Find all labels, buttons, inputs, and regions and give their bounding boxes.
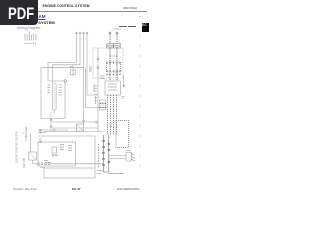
shield box S1 (100, 100, 106, 110)
pin label stack P2 (59, 85, 62, 95)
header rule (37, 10, 147, 13)
connector brackets on enclosure top (107, 44, 121, 48)
wire W2 (feed to resistor stem) (53, 34, 81, 84)
ECM strip box (41, 168, 102, 179)
wire W8 (38, 135, 95, 137)
wire W13 (52, 121, 96, 123)
wire W1 (feed to coil line) (48, 34, 77, 82)
label cluster N4 (left of enclosure) (89, 67, 92, 71)
INFOID code smudge (119, 26, 127, 27)
connector circle X4 (40, 129, 42, 131)
wire W5 (feed to harness) (87, 34, 98, 96)
connector circle X1 (64, 80, 67, 83)
component T1 (sensor tap) (70, 65, 80, 77)
label EC page ref (108, 173, 124, 175)
vertical label V3 (left of conduit) (98, 144, 100, 168)
wiring diagram svg (0, 0, 149, 198)
component C3 (inside U1) (52, 145, 72, 157)
margin grid marks (139, 17, 141, 167)
wire W7b (38, 131, 46, 133)
wire W11 (34, 163, 104, 165)
dashed sub box E2 (107, 62, 121, 72)
connector M1 (solid box) (105, 81, 121, 95)
dotted branch wires (100, 104, 107, 108)
header title (0, 4, 132, 8)
svg-text:IGNITION: IGNITION (24, 157, 26, 168)
wire W15 (44, 131, 104, 133)
wire labels above connector M1 (100, 76, 105, 79)
ignition coil bar (48, 80, 67, 83)
terminator X2 (122, 75, 125, 99)
wire W9 (left drop) (30, 134, 32, 153)
arrowheads on dashed wires (109, 32, 118, 34)
link WIRING DIAGRAM (partially covered by badge) (35, 14, 45, 19)
svg-text:CONDENSER: CONDENSER (26, 126, 28, 141)
outer unit right edge (94, 136, 96, 168)
conduit bus K1 (103, 135, 110, 172)
wire W4 (feed down to condenser node) (83, 68, 85, 121)
ground G1 (body ground with hatch) (109, 151, 135, 162)
footer page number (72, 187, 81, 191)
vertical label V2 (left of M1) (93, 84, 95, 92)
wire W6 (harness left drop) (97, 78, 99, 132)
arrowheads on feed wires (75, 32, 88, 34)
Wiring Diagram subheading (17, 26, 40, 30)
switch box SW1 (29, 152, 37, 160)
label cluster N1 (94, 86, 98, 101)
resistor R1 (tall loop element) (53, 83, 57, 114)
EC section tab (142, 23, 150, 32)
dashed wire D2 (dotted chain) (116, 34, 118, 82)
connector circle XA (97, 58, 99, 60)
wire W4b (shield drop) (86, 68, 101, 108)
wire W12 (dashed drop with taps) (50, 112, 52, 132)
internal wire W6a (97, 48, 99, 78)
footer model (117, 188, 139, 191)
header engine code (122, 6, 138, 10)
connector circle X7 (83, 120, 85, 122)
svg-text:ENGINE CONTROL SYSTEM: ENGINE CONTROL SYSTEM (16, 131, 19, 163)
connector circle X6 (96, 121, 98, 123)
dashed wire D1 (dotted chain) (109, 34, 111, 82)
pin dots of harness E1 (106, 62, 120, 75)
heading SYSTEM (partially covered by badge) (38, 20, 54, 25)
pin label stack P1 (48, 85, 51, 93)
wire W10 (32, 160, 34, 164)
pin dot columns under connector M1 (100, 95, 117, 135)
label above dashed wires (114, 28, 121, 30)
connector circles X5 (38, 163, 40, 165)
wire W3 (feed to box left edge) (41, 34, 84, 119)
dashed harness enclosure E1 (93, 48, 123, 78)
label cluster N3 (110, 124, 113, 127)
connector circles X4b (40, 139, 42, 141)
label cluster N5 (100, 170, 105, 172)
relay RY1 contact rows (29, 129, 104, 165)
condenser C4 (box with diagonal) (77, 120, 85, 131)
link dashes inside E2 (110, 55, 117, 57)
control unit box U1 (38, 142, 76, 166)
dashed box E3 (116, 121, 129, 148)
footer revision (13, 188, 37, 191)
wire W14 (52, 127, 98, 129)
fuse legend cluster (24, 30, 37, 44)
label cluster N6 (44, 161, 51, 163)
PDF badge (0, 0, 38, 25)
label cluster N2 (23, 132, 25, 134)
wire W7 (38, 130, 67, 132)
vertical label V1 (95, 96, 97, 104)
connector circle XB (97, 67, 99, 69)
connector circle X3 (53, 129, 55, 131)
